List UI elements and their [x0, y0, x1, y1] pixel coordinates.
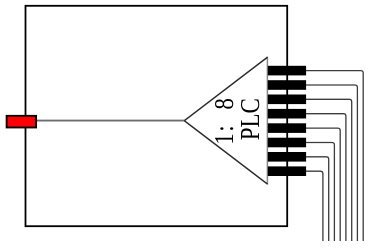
wire output 1 [306, 71, 363, 241]
splitter bottom slant edge [184, 121, 267, 185]
wire output 5 [306, 128, 340, 241]
splitter U1 triangle body [184, 57, 267, 184]
output port 3 [268, 95, 306, 105]
wire output 4 [306, 114, 346, 241]
input fiber wire [36, 120, 185, 122]
svg-text:PLC: PLC [236, 98, 265, 140]
wire output 3 [306, 99, 352, 241]
output port 1 [268, 66, 306, 76]
wire output 7 [306, 157, 329, 241]
enclosure box [26, 6, 288, 226]
output port 8 [268, 166, 306, 176]
wire output 8 [306, 171, 323, 241]
output port 5 [268, 123, 306, 133]
svg-text:1: 1 [210, 133, 239, 145]
output port 7 [268, 152, 306, 162]
output port 2 [268, 80, 306, 90]
input connector (red) [7, 116, 36, 128]
svg-text::: : [210, 125, 239, 131]
svg-text:8: 8 [210, 98, 239, 110]
output port 6 [268, 138, 306, 148]
wire output 2 [306, 85, 357, 241]
output port 4 [268, 109, 306, 119]
splitter top slant edge [184, 57, 267, 121]
wire output 6 [306, 143, 334, 242]
splitter base edge [266, 57, 268, 185]
